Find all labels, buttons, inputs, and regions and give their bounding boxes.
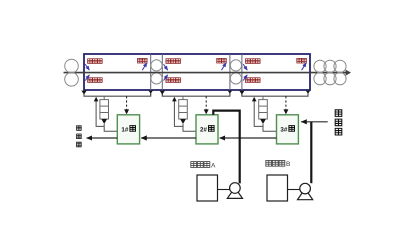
strip/pickling line long tank box — [84, 54, 310, 90]
label: acid regeneration (vertical) — [77, 126, 82, 131]
column E2 outlet funnel tip — [180, 119, 186, 124]
squeeze rolls 1 — [151, 60, 162, 84]
entry roll stand — [65, 59, 79, 86]
spray arrow outlet section 1 — [142, 63, 147, 70]
steel strip pass line — [64, 72, 347, 74]
dashed drain line into tank 1 — [126, 96, 128, 110]
label: regenerated acid (vertical) — [335, 110, 342, 117]
acid tank 3 (3#) — [277, 115, 299, 144]
pump A — [227, 188, 242, 199]
label inlet-top section 1 — [88, 59, 93, 64]
exit roll stands — [314, 60, 346, 85]
inhibitor B tank — [267, 175, 288, 201]
spray arrow outlet section 3 — [302, 63, 307, 70]
label inlet-bottom section 1 — [88, 78, 93, 83]
spray arrow outlet section 2 — [222, 63, 227, 70]
spray arrow inlet bottom section 3 — [243, 75, 247, 81]
dashed drain line into tank 3 — [285, 96, 287, 110]
acid tank 2 (2#) — [196, 115, 218, 144]
drain arrow pan 3 left — [239, 91, 244, 95]
label outlet section 3 — [297, 58, 302, 63]
collection pan 2 under tank section 2 — [162, 90, 230, 96]
spent acid line to regeneration — [87, 137, 118, 139]
label outlet section 2 — [217, 58, 222, 63]
squeeze rolls 2 — [230, 60, 241, 84]
pipe from column E3 to tank 3 — [263, 124, 277, 131]
label inlet-bottom section 2 — [166, 78, 171, 83]
heat exchanger / filter column E3 — [262, 96, 264, 99]
promoter A dosing pipe into tank 2 — [213, 111, 239, 184]
svg-text:A: A — [211, 162, 216, 169]
label inhibitor B — [266, 160, 272, 166]
spray arrow inlet top section 2 — [164, 64, 168, 70]
promoter A tank — [197, 175, 218, 201]
label promoter A — [191, 162, 197, 168]
spray return riser section 1 — [96, 100, 104, 126]
label inlet-top section 2 — [166, 59, 171, 64]
label inlet-bottom section 3 — [246, 78, 251, 83]
label outlet section 1 — [138, 58, 143, 63]
regenerated acid supply line into tank 3 — [301, 121, 328, 123]
drain arrow pan 2 left — [160, 91, 165, 95]
dashed drain line into tank 2 — [205, 96, 207, 110]
spray return riser section 3 — [254, 100, 263, 126]
inhibitor B dosing pipe — [310, 122, 312, 183]
squeeze roll housing 1 (between section 1 and 2) — [151, 54, 163, 96]
column E1 outlet funnel tip — [101, 119, 107, 124]
acid tank 1 (1#) — [117, 115, 139, 144]
drain arrow pan 3 right — [306, 91, 310, 94]
drain arrow pan 1 right — [149, 91, 153, 94]
spray arrow inlet top section 3 — [243, 64, 247, 70]
pipe from column E2 to tank 2 — [183, 124, 196, 131]
svg-text:1#: 1# — [121, 126, 128, 133]
overflow line tank2 to tank1 — [141, 137, 196, 139]
squeeze roll housing 2 (between section 2 and 3) — [230, 54, 242, 96]
svg-text:B: B — [286, 161, 291, 168]
svg-text:2#: 2# — [200, 126, 207, 133]
spray return riser section 2 — [174, 100, 183, 126]
drain arrow pan 2 right — [228, 91, 232, 94]
spray arrow inlet bottom section 2 — [164, 75, 168, 81]
pump A suction line — [218, 189, 230, 191]
spray arrow inlet bottom section 1 — [85, 75, 89, 81]
heat exchanger / filter column E1 — [103, 96, 105, 99]
collection pan 3 under tank section 3 — [242, 90, 308, 96]
overflow line tank3 to tank2 — [220, 137, 277, 139]
spray arrow inlet top section 1 — [85, 64, 89, 70]
pipe from column E1 to tank 1 — [104, 124, 117, 131]
column E3 outlet funnel tip — [260, 119, 266, 124]
heat exchanger / filter column E2 — [182, 96, 184, 99]
label inlet-top section 3 — [246, 59, 251, 64]
svg-text:3#: 3# — [280, 126, 287, 133]
drain arrow pan 1 left — [81, 91, 86, 95]
collection pan 1 under tank section 1 — [84, 90, 151, 96]
pump B — [298, 189, 313, 200]
pump B suction line — [288, 189, 300, 191]
